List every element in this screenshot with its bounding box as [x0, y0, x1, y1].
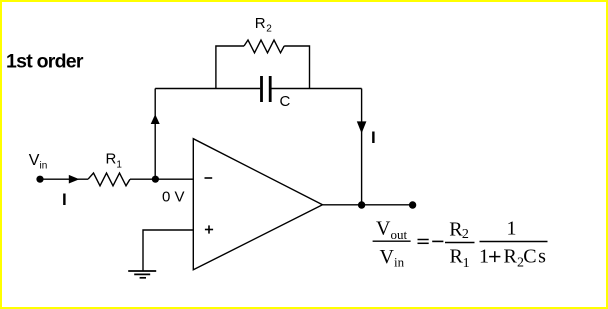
svg-text:I: I [371, 128, 376, 147]
node output terminal [409, 201, 416, 208]
svg-text:R: R [504, 245, 518, 267]
current arrow input I [69, 175, 80, 184]
svg-text:Cs: Cs [523, 245, 547, 267]
wire R2 branch left stub [216, 46, 244, 89]
wire input Vin to R1 [40, 178, 88, 180]
svg-text:1: 1 [479, 245, 489, 267]
svg-text:2: 2 [462, 227, 469, 242]
op-amp minus pin label [205, 177, 213, 179]
capacitor C [260, 76, 271, 102]
wire R1 to inverting input [130, 178, 193, 180]
wire non-inverting input to ground [143, 230, 193, 271]
ground [128, 271, 156, 278]
svg-text:1st order: 1st order [6, 51, 84, 73]
node 0V junction [152, 176, 159, 183]
wire feedback vertical down to output [361, 89, 363, 205]
formula Vout/Vin = -R2/R1 * 1/(1+R2Cs) [373, 217, 548, 270]
op-amp plus pin label [205, 225, 213, 233]
op-amp U1 [193, 139, 322, 270]
svg-text:Vin: Vin [380, 246, 405, 270]
svg-text:R1: R1 [106, 150, 123, 170]
svg-text:R: R [450, 245, 464, 267]
wire feedback right segment from capacitor [272, 88, 362, 90]
svg-text:R2: R2 [255, 15, 272, 35]
node Vin [36, 176, 43, 183]
wire R2 branch right stub [284, 46, 309, 89]
wire op-amp output to terminal [323, 204, 412, 206]
svg-text:1: 1 [507, 217, 517, 239]
svg-text:Vin: Vin [29, 152, 47, 172]
resistor R2 [244, 40, 284, 53]
current arrow down right feedback [357, 121, 367, 133]
resistor R1 [88, 173, 130, 186]
wire junction up to feedback line [154, 89, 156, 180]
svg-text:I: I [62, 190, 67, 209]
svg-text:1: 1 [463, 256, 470, 271]
svg-text:C: C [280, 93, 291, 110]
wire feedback left segment to capacitor [155, 88, 260, 90]
svg-text:0 V: 0 V [162, 189, 185, 206]
svg-text:Vout: Vout [376, 217, 407, 242]
node output junction [358, 201, 365, 208]
current arrow up left feedback [151, 114, 160, 124]
